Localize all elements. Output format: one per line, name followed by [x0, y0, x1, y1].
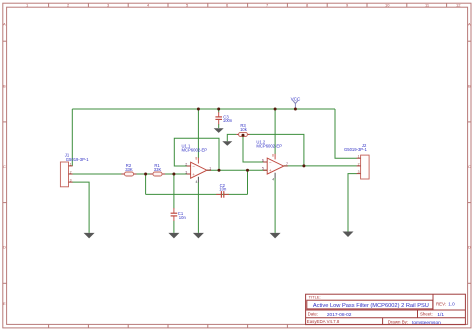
svg-text:3: 3: [70, 179, 72, 183]
svg-text:REV:: REV:: [436, 301, 446, 306]
svg-text:1: 1: [358, 155, 360, 159]
wire U1.1 output row to U1.2 pin5: [207, 169, 267, 171]
svg-text:2: 2: [185, 163, 187, 167]
svg-text:2: 2: [70, 170, 72, 174]
svg-text:tomsteemson: tomsteemson: [412, 320, 441, 326]
J1 pin numbers: [70, 162, 72, 182]
J2 pins: [357, 158, 361, 173]
node rail-U1.1 supply: [197, 108, 200, 111]
svg-text:10: 10: [385, 3, 390, 8]
C1 plates: [171, 212, 178, 214]
svg-text:−: −: [269, 160, 272, 165]
R3 leads: [236, 133, 239, 135]
svg-text:E: E: [3, 301, 6, 306]
R3 body: [239, 132, 248, 136]
wire U1.1 pin4 down to ground: [197, 182, 199, 233]
wire R3 node down to U1.2 pin6: [243, 134, 267, 162]
svg-text:TITLE:: TITLE:: [309, 295, 321, 300]
svg-text:6: 6: [262, 159, 264, 163]
svg-text:1.0: 1.0: [448, 301, 455, 306]
svg-text:G5019-3P-1: G5019-3P-1: [66, 157, 89, 162]
svg-text:+: +: [192, 172, 195, 177]
wire C2 row up-leg to output row: [247, 170, 249, 194]
node rail-C3: [217, 108, 220, 111]
wire bottom feedback row through C2: [146, 193, 248, 195]
node rail-U1.2 supply: [274, 108, 277, 111]
svg-text:10n: 10n: [219, 187, 227, 192]
U1.2 triangle: [267, 158, 284, 174]
frame zone ticks right: [468, 41, 471, 283]
svg-text:1: 1: [70, 162, 72, 166]
node U1.2 output-J2: [302, 164, 305, 167]
wire J1 pin3 right and down to ground: [72, 182, 89, 233]
C2 plates: [220, 191, 222, 198]
wire U1.2 supply drop from rail: [274, 109, 276, 154]
svg-text:MCP6002-EP: MCP6002-EP: [182, 148, 208, 153]
frame zone ticks bottom: [49, 324, 288, 328]
svg-text:Date:: Date:: [308, 312, 319, 317]
node B (R1-pin3-C1): [172, 173, 175, 176]
wire C1 bottom to ground: [173, 221, 175, 233]
svg-text:G5019-3P-1: G5019-3P-1: [344, 147, 367, 152]
svg-text:A: A: [3, 22, 6, 27]
svg-text:10k: 10k: [240, 127, 248, 132]
R1 body: [153, 172, 162, 176]
U1.1 V- pin 4 stub: [197, 177, 199, 183]
U1.1 V+ pin 8 stub: [197, 158, 199, 164]
ground C1: [168, 233, 179, 239]
U1.1 input pin stubs: [187, 165, 191, 167]
ground J2 pin3: [343, 232, 354, 238]
svg-text:Drawn By:: Drawn By:: [388, 320, 408, 325]
U1.2 V- pin 4 stub: [274, 173, 276, 179]
svg-text:10n: 10n: [179, 215, 187, 220]
wire U1.2 pin4 down to ground: [274, 178, 276, 233]
ground U1.2 pin4: [270, 233, 281, 239]
J2 pin numbers: [358, 155, 360, 174]
R2 body: [125, 172, 134, 176]
U1.1 output pin stub: [207, 169, 211, 171]
wire rail corner down to J2 pin1: [335, 109, 357, 158]
svg-text:8: 8: [195, 157, 197, 161]
svg-text:33K: 33K: [125, 167, 133, 172]
svg-text:VCC: VCC: [291, 96, 301, 101]
ground J1 pin3: [84, 233, 95, 239]
U1.1 triangle: [191, 162, 207, 178]
wire J1 pin2 to U1.1 pin3 (main input row): [72, 173, 190, 175]
R2 leads: [121, 173, 124, 175]
frame zone letters left: [3, 22, 6, 307]
svg-text:+: +: [269, 168, 272, 173]
svg-text:C: C: [468, 164, 471, 169]
R1 leads: [150, 173, 153, 175]
frame zone numbers top: [26, 3, 461, 8]
U1.2 input pin stubs: [263, 161, 267, 163]
svg-text:A: A: [468, 22, 471, 27]
U1.2 V+ pin 8 stub: [274, 154, 276, 160]
C1 leads: [173, 208, 175, 213]
svg-text:2: 2: [358, 162, 360, 166]
svg-text:Active Low Pass Filter (MCP600: Active Low Pass Filter (MCP6002) 2 Rail …: [313, 303, 429, 309]
svg-text:33K: 33K: [154, 167, 162, 172]
wire top supply rail: [72, 108, 335, 110]
frame zone ticks left: [3, 41, 7, 283]
C3 leads: [218, 112, 220, 117]
frame zone ticks top: [49, 3, 447, 7]
wire R3 left to ground stub: [227, 134, 236, 141]
svg-text:B: B: [468, 84, 471, 89]
wire R3 right to feedback vertical: [250, 134, 304, 166]
wire junction A down-leg: [145, 174, 147, 194]
wire C3 stub top: [218, 109, 220, 113]
VCC symbol: [293, 100, 298, 109]
svg-text:−: −: [192, 164, 195, 169]
node C2-pin5: [246, 169, 249, 172]
svg-text:3: 3: [358, 170, 360, 174]
svg-text:B: B: [3, 84, 6, 89]
svg-text:EasyEDA V4.7.8: EasyEDA V4.7.8: [307, 319, 340, 324]
wire J2 pin3 left and down to ground: [348, 174, 357, 232]
svg-text:3: 3: [185, 171, 187, 175]
U1.2 output pin stub: [284, 165, 288, 167]
wire C3 bottom to ground: [218, 124, 220, 128]
ground U1.1 pin4: [193, 233, 204, 239]
svg-text:D: D: [3, 245, 6, 250]
frame zone letters right: [468, 22, 471, 250]
J1 pins: [69, 166, 73, 182]
wire U1.2 output row to J2 pin2: [284, 165, 357, 167]
J2 body: [361, 155, 370, 179]
svg-text:C: C: [3, 164, 6, 169]
svg-text:100n: 100n: [223, 118, 233, 123]
svg-text:1/1: 1/1: [437, 312, 444, 318]
wire U1.1 supply drop from rail: [197, 109, 199, 158]
node R3-pin6: [242, 134, 245, 137]
svg-text:7: 7: [286, 162, 288, 166]
wire U1.1 pin2 feedback loop: [174, 138, 219, 170]
svg-text:MCP6002-EP: MCP6002-EP: [256, 144, 282, 149]
svg-text:D: D: [468, 245, 471, 250]
svg-text:Sheet:: Sheet:: [420, 312, 433, 317]
wire rail down to J1 pin1: [71, 109, 73, 166]
ground R3 left: [222, 141, 232, 146]
svg-text:5: 5: [262, 167, 264, 171]
svg-text:2017-08-02: 2017-08-02: [327, 312, 352, 318]
node rail-VCC: [294, 108, 297, 111]
C3 plates: [215, 116, 222, 118]
J1 body: [60, 162, 68, 187]
svg-text:1: 1: [209, 166, 211, 170]
svg-text:4: 4: [196, 180, 198, 184]
ground C3: [214, 128, 224, 133]
node A (R2-R1-C2): [144, 173, 147, 176]
svg-text:8: 8: [272, 153, 274, 157]
node U1.1 output feedback: [218, 169, 221, 172]
svg-text:4: 4: [272, 177, 274, 181]
svg-text:12: 12: [456, 3, 461, 8]
C2 leads: [216, 193, 221, 195]
wire junction B down to C1: [173, 174, 175, 209]
